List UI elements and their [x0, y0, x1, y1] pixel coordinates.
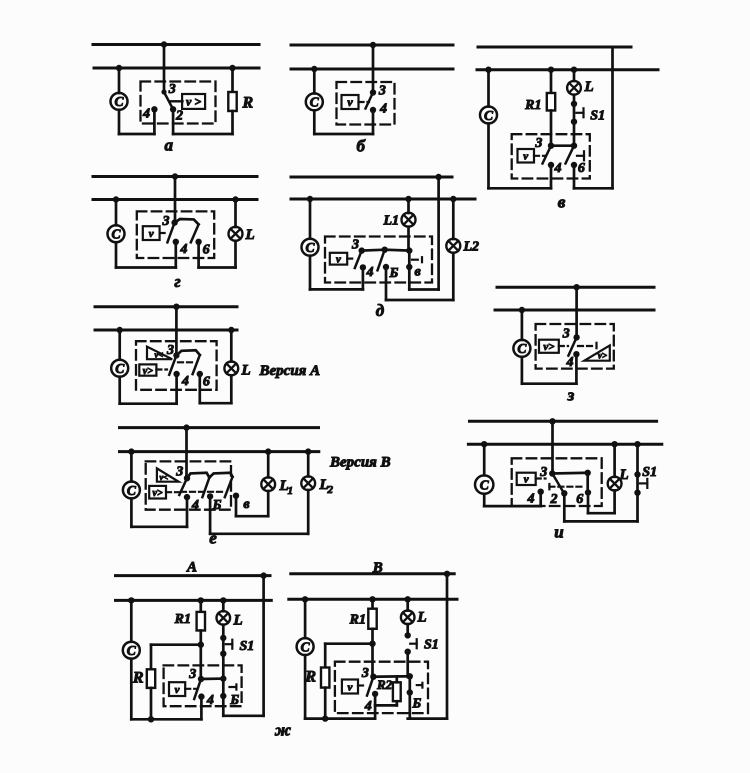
svg-text:L: L: [619, 467, 629, 483]
svg-text:S1: S1: [424, 638, 439, 653]
svg-text:C: C: [111, 227, 121, 242]
svg-text:4: 4: [527, 492, 535, 507]
svg-text:S1: S1: [642, 465, 657, 480]
svg-text:А: А: [186, 560, 197, 576]
svg-text:C: C: [301, 639, 311, 654]
svg-text:3: 3: [351, 238, 359, 253]
svg-text:2: 2: [550, 492, 558, 507]
svg-text:а: а: [165, 136, 174, 155]
svg-text:S1: S1: [240, 639, 255, 654]
svg-text:L: L: [584, 79, 594, 95]
svg-text:Б: Б: [389, 266, 399, 281]
svg-text:3: 3: [162, 214, 170, 229]
svg-text:з: з: [567, 386, 575, 405]
svg-text:v>: v>: [543, 341, 554, 353]
svg-text:v: v: [524, 474, 529, 486]
svg-text:R2: R2: [376, 677, 393, 692]
svg-text:R1: R1: [349, 613, 366, 628]
svg-text:C: C: [305, 240, 315, 255]
svg-text:L: L: [241, 363, 251, 379]
svg-text:C: C: [127, 483, 137, 498]
svg-text:3: 3: [562, 327, 570, 342]
svg-text:2: 2: [327, 484, 334, 496]
svg-text:v: v: [175, 684, 180, 696]
svg-text:v >: v >: [186, 94, 201, 108]
svg-text:6: 6: [576, 492, 583, 507]
svg-text:C: C: [480, 477, 490, 492]
svg-text:S1: S1: [590, 109, 605, 124]
svg-text:v: v: [523, 151, 528, 163]
svg-text:C: C: [484, 108, 494, 123]
svg-text:C: C: [517, 341, 527, 356]
svg-text:L2: L2: [463, 240, 480, 255]
svg-text:L: L: [417, 610, 427, 626]
svg-text:3: 3: [361, 666, 369, 681]
svg-text:в: в: [414, 265, 421, 280]
svg-text:4: 4: [379, 102, 387, 117]
svg-text:4: 4: [206, 693, 214, 708]
svg-text:Версия В: Версия В: [329, 455, 391, 471]
svg-text:3: 3: [175, 465, 183, 480]
svg-text:v>: v>: [143, 366, 153, 377]
svg-text:4: 4: [554, 161, 562, 176]
svg-text:4: 4: [364, 699, 372, 714]
svg-text:R1: R1: [524, 98, 541, 113]
svg-text:д: д: [376, 301, 385, 320]
svg-text:R: R: [304, 669, 316, 686]
svg-text:C: C: [127, 643, 137, 658]
svg-text:6: 6: [203, 243, 210, 258]
svg-text:C: C: [114, 94, 124, 109]
svg-text:v<: v<: [160, 472, 169, 482]
svg-text:4: 4: [191, 498, 199, 513]
svg-text:3: 3: [168, 82, 176, 97]
svg-text:3: 3: [166, 343, 174, 358]
svg-text:ж: ж: [274, 721, 291, 740]
svg-text:2: 2: [175, 109, 183, 124]
svg-text:v: v: [348, 681, 353, 693]
svg-text:v: v: [347, 95, 353, 109]
svg-text:v>: v>: [153, 488, 163, 499]
svg-text:4: 4: [366, 265, 374, 280]
svg-text:v: v: [336, 254, 341, 266]
svg-text:Б: Б: [411, 696, 421, 711]
svg-text:6: 6: [578, 161, 585, 176]
svg-text:v: v: [149, 228, 154, 240]
svg-text:4: 4: [566, 355, 574, 370]
svg-text:и: и: [554, 523, 563, 542]
svg-text:4: 4: [181, 374, 189, 389]
svg-text:Версия А: Версия А: [259, 363, 321, 379]
svg-text:v>: v>: [598, 351, 607, 361]
svg-text:Б: Б: [212, 498, 222, 513]
svg-text:в: в: [243, 497, 250, 512]
svg-text:C: C: [115, 361, 125, 376]
svg-text:C: C: [310, 95, 320, 110]
svg-text:v<: v<: [155, 350, 164, 360]
svg-text:L: L: [245, 227, 255, 243]
svg-text:3: 3: [188, 667, 196, 682]
svg-text:6: 6: [203, 375, 210, 390]
svg-text:R: R: [242, 95, 254, 112]
svg-text:в: в: [558, 193, 566, 212]
svg-text:1: 1: [288, 485, 294, 497]
svg-text:R: R: [132, 670, 144, 687]
svg-text:е: е: [209, 529, 217, 548]
svg-text:4: 4: [179, 242, 187, 257]
svg-text:L: L: [233, 613, 243, 629]
svg-text:R1: R1: [174, 612, 191, 627]
svg-text:3: 3: [534, 136, 542, 151]
svg-text:3: 3: [378, 84, 386, 99]
svg-text:4: 4: [142, 107, 150, 122]
svg-text:Б: Б: [229, 693, 239, 708]
svg-text:L1: L1: [382, 214, 399, 229]
svg-text:г: г: [174, 272, 180, 291]
